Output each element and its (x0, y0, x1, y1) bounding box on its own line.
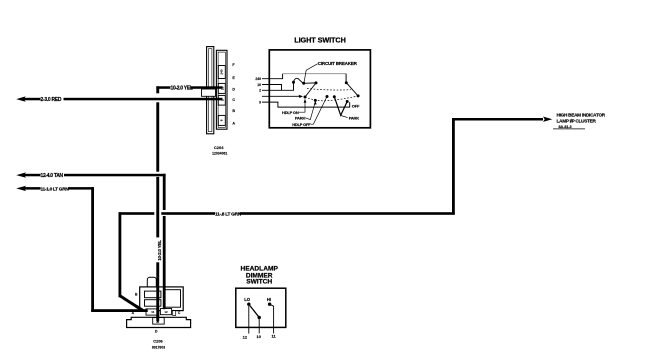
svg-text:C204: C204 (214, 145, 224, 150)
C206 right window (164, 290, 181, 308)
C206 notch right of cell 12 (173, 311, 176, 316)
switch contact link D2-D3 (304, 82, 316, 84)
wire 11 LT GRN vertical riser at right (452, 118, 455, 215)
svg-text:2: 2 (221, 99, 225, 101)
C204 cell 2 (pin C) (218, 95, 225, 105)
circuit breaker label leader (304, 64, 318, 83)
wire 12-4.0 TAN with off-page arrow (16, 172, 165, 179)
C204 cell 9 (pin B) (218, 115, 225, 125)
C206 cell 11 (146, 309, 158, 315)
light switch box (269, 50, 370, 128)
HEADLAMP DIMMER SWITCH title (241, 266, 279, 286)
svg-text:B: B (232, 109, 235, 113)
headlamp wiper arm (305, 83, 316, 97)
connector C204 pin strip (216, 50, 227, 129)
svg-text:CIRCUIT BREAKER: CIRCUIT BREAKER (318, 61, 358, 66)
C204 cell 10 (pin D) (218, 83, 225, 93)
wire 11-.8 LT GRN to high beam indicator: vertical from C206 (119, 212, 122, 297)
svg-text:10: 10 (257, 83, 261, 87)
C204 terminal box between pins C and D (202, 89, 216, 96)
svg-text:12: 12 (164, 310, 168, 314)
wire 11 LT GRN overlay into cell 11 (139, 309, 148, 312)
svg-text:C206: C206 (153, 339, 163, 344)
wire 10-2.0 YEL vertical run to C206 pin 10 (156, 86, 162, 321)
wire 11 LT GRN diagonal into C206 cell 11 (120, 296, 143, 311)
light switch feed wire (unlabeled) with arrow (262, 95, 303, 98)
HDLP OFF leader (311, 97, 327, 125)
dimmer pin numbers (243, 334, 277, 340)
svg-text:9: 9 (220, 119, 224, 121)
svg-text:PARK: PARK (295, 116, 306, 121)
svg-text:2-3.0 RED: 2-3.0 RED (41, 97, 62, 103)
circuit breaker symbol (294, 78, 304, 83)
wire 12 TAN vertical to C206 pin 12 (163, 174, 166, 210)
dimmer contact dots (247, 303, 271, 320)
dimmer wiper arm (250, 306, 259, 318)
wire 11-1.0 LT GRN with off-page arrow (16, 186, 94, 193)
light switch feed wire 240 (262, 74, 346, 83)
svg-text:2: 2 (259, 89, 261, 93)
dimmer pin line 10 (258, 319, 260, 333)
svg-text:12-4.0 TAN: 12-4.0 TAN (41, 173, 64, 179)
wire 10-2.0 YEL horizontal (C204 pin D) (156, 85, 222, 91)
wire 10-2.0 YEL overlay across C206 body into cell 10 (156, 287, 159, 321)
svg-text:PARK: PARK (349, 116, 360, 121)
C206 pin letters (132, 293, 181, 334)
svg-text:12: 12 (243, 334, 248, 339)
headlamp dimmer switch box (236, 288, 286, 327)
circuit wire number labels at light switch (255, 77, 261, 105)
connector C204 shell (207, 47, 214, 134)
svg-text:HI: HI (267, 297, 271, 302)
park contact V link (334, 97, 347, 116)
wire 2-3.0 RED with off-page arrow (16, 96, 222, 103)
C204 label (212, 145, 227, 156)
C204 pin letters F E D C B A (232, 63, 235, 126)
svg-text:10-2.0 YEL: 10-2.0 YEL (157, 240, 162, 261)
C206 label (152, 339, 165, 350)
svg-text:LO: LO (244, 297, 251, 302)
svg-text:HIGH BEAM INDICATOR: HIGH BEAM INDICATOR (557, 113, 606, 118)
connector C206 bump tab (147, 277, 156, 288)
svg-text:240: 240 (255, 77, 261, 81)
svg-text:LIGHT SWITCH: LIGHT SWITCH (294, 35, 346, 44)
wire 11-.8 LT GRN horizontal (119, 212, 455, 218)
svg-text:11: 11 (151, 310, 154, 314)
light switch feed wire 2 (262, 83, 294, 91)
svg-text:HDLP ON: HDLP ON (282, 110, 299, 115)
lower dashed wiper track (305, 96, 358, 101)
C206 slot 1 (145, 291, 161, 298)
light switch feed wire 9 (262, 102, 350, 107)
svg-text:8917803: 8917803 (152, 345, 165, 349)
svg-text:10: 10 (221, 86, 225, 90)
svg-text:9: 9 (259, 101, 261, 105)
svg-text:10: 10 (257, 334, 262, 339)
right wiper arm (off position) (346, 83, 358, 96)
C206 slot 2 (145, 300, 161, 307)
PARK right leader (341, 116, 348, 118)
connector C206 body (140, 287, 184, 311)
C204 rotated pin numbers (220, 69, 225, 121)
svg-text:8A-81-3: 8A-81-3 (559, 125, 572, 129)
C206 base bracket (127, 317, 191, 327)
svg-text:HDLP OFF: HDLP OFF (292, 122, 311, 127)
svg-text:SWITCH: SWITCH (246, 279, 272, 286)
wire 11 LT GRN horizontal into C206 cell 11 (91, 309, 148, 312)
C206 cell labels (151, 310, 168, 314)
svg-text:C: C (232, 98, 235, 102)
svg-text:10-2.0 YEL: 10-2.0 YEL (171, 85, 193, 91)
light switch feed wire 10 (262, 85, 282, 91)
dimmer pin line 12 (248, 306, 250, 334)
upper dashed wiper track (307, 88, 351, 90)
wire 11 LT GRN diagonal overlay (136, 306, 144, 311)
wire 11 LT GRN horizontal to high beam indicator arrow (452, 117, 552, 122)
HDLP ON label and leader (282, 99, 306, 115)
C206 cell 10 contact mark (156, 319, 159, 322)
svg-text:12034061: 12034061 (212, 152, 227, 156)
switch contact dots (292, 81, 360, 103)
svg-text:D: D (232, 87, 235, 91)
svg-text:OFF: OFF (352, 104, 360, 109)
PARK left label and leader (295, 101, 317, 121)
C204 cell 240 (pin E) (218, 66, 225, 79)
svg-text:A: A (232, 122, 235, 126)
svg-text:240: 240 (220, 69, 224, 74)
dimmer pin line 11 (270, 304, 274, 333)
svg-text:11-.8 LT GRN: 11-.8 LT GRN (215, 212, 242, 218)
svg-text:11-1.0 LT GRN: 11-1.0 LT GRN (41, 186, 70, 192)
svg-text:LAMP I/P CLUSTER: LAMP I/P CLUSTER (557, 119, 597, 124)
wire 11 LT GRN vertical down to C206 pin 11 (91, 187, 94, 312)
C206 cell 12 (160, 309, 171, 315)
high beam indicator destination text (553, 113, 606, 129)
C206 cell 10 (153, 318, 165, 325)
wire 12 TAN overlay across C206 body into cell 12 (163, 287, 166, 309)
